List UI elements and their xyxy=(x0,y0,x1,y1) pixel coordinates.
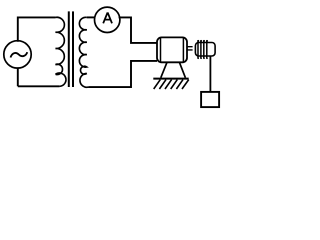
ground hatching xyxy=(154,80,189,89)
transformer T1 secondary winding xyxy=(79,17,86,74)
rope xyxy=(209,56,211,91)
motor M body xyxy=(157,37,187,62)
transformer T1 primary winding xyxy=(56,17,65,74)
motor left end cap line xyxy=(160,37,162,62)
secondary bottom lead curl xyxy=(80,74,89,88)
AC source G1 xyxy=(4,41,31,68)
winch drum body xyxy=(195,43,215,57)
wire secondary bottom to motor lower terminal xyxy=(89,61,158,87)
motor shaft xyxy=(187,47,193,50)
weight W xyxy=(201,92,219,107)
AC sine symbol xyxy=(11,52,28,57)
wire bottom-left: source to primary bottom xyxy=(18,67,60,86)
primary bottom lead curl xyxy=(56,73,66,86)
drum rope wrap knots xyxy=(197,40,199,42)
ammeter label A xyxy=(103,12,112,23)
ammeter A1 circle xyxy=(95,7,120,32)
motor mount right leg xyxy=(180,63,186,78)
transformer core line 2 xyxy=(72,11,74,87)
motor right end cap line xyxy=(182,37,184,62)
transformer core line 1 xyxy=(68,11,70,87)
wire ammeter to motor upper terminal xyxy=(119,17,157,43)
wire secondary top to ammeter xyxy=(87,16,96,18)
ground line xyxy=(153,78,188,80)
drum rope wraps xyxy=(198,41,207,59)
motor mount left leg xyxy=(161,63,167,78)
wire top-left: source to primary xyxy=(18,17,56,41)
